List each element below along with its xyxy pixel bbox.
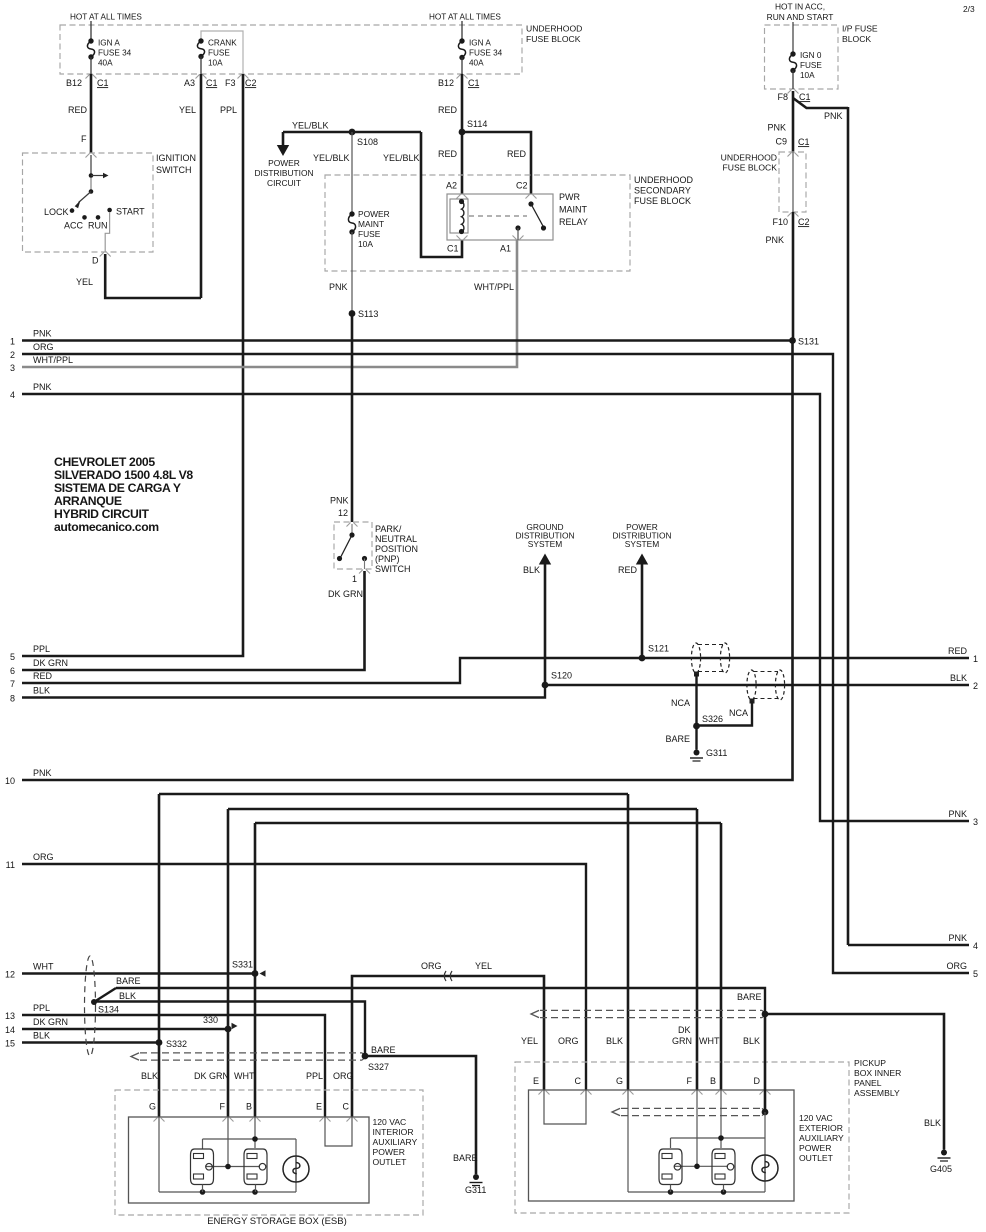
splice S331 (252, 970, 259, 977)
svg-text:E: E (533, 1076, 539, 1086)
wire BARE from S134 (94, 988, 116, 1002)
svg-text:F: F (687, 1076, 693, 1086)
svg-text:C1: C1 (468, 78, 480, 88)
svg-text:ORG: ORG (421, 961, 442, 971)
svg-text:C: C (343, 1102, 350, 1112)
fuse POWER MAINT FUSE 10A (349, 211, 354, 216)
wire through underhood fuse block (792, 152, 794, 212)
splice S114 (459, 129, 466, 136)
svg-text:BLK: BLK (141, 1071, 158, 1081)
svg-text:S327: S327 (368, 1062, 389, 1072)
svg-text:A1: A1 (500, 244, 511, 254)
svg-text:12: 12 (338, 508, 348, 518)
svg-text:PWR: PWR (559, 192, 580, 202)
ignition START contact (107, 208, 112, 213)
interior outlet internal middle bus (227, 1117, 229, 1167)
svg-text:120 VAC: 120 VAC (799, 1113, 833, 1123)
svg-text:IGN 0: IGN 0 (800, 51, 822, 60)
wire BLK step (159, 793, 628, 796)
svg-text:2: 2 (10, 350, 15, 360)
svg-text:8: 8 (10, 694, 15, 704)
svg-text:PNK: PNK (33, 768, 52, 778)
svg-text:YEL: YEL (76, 277, 93, 287)
svg-text:POWER: POWER (268, 158, 300, 168)
svg-text:WHT: WHT (234, 1071, 255, 1081)
svg-text:ASSEMBLY: ASSEMBLY (854, 1088, 900, 1098)
svg-text:13: 13 (5, 1011, 15, 1021)
svg-text:BARE: BARE (116, 976, 141, 986)
ignition switch internals (90, 155, 92, 174)
connector bracket pin 12 (347, 523, 358, 527)
svg-text:3: 3 (10, 363, 15, 373)
svg-text:FUSE BLOCK: FUSE BLOCK (526, 34, 581, 44)
svg-text:RED: RED (438, 149, 458, 159)
splice S134 (91, 999, 97, 1005)
relay switch blade (531, 204, 544, 227)
svg-text:SYSTEM: SYSTEM (625, 539, 659, 549)
svg-text:WHT/PPL: WHT/PPL (474, 282, 514, 292)
svg-text:10A: 10A (208, 59, 223, 68)
svg-text:7: 7 (10, 679, 15, 689)
receptacle (interior right) (244, 1149, 267, 1185)
wire ORG-YEL interior C to exterior E (352, 976, 544, 1117)
svg-text:BLK: BLK (33, 686, 50, 696)
exterior outlet E-C link (544, 1090, 586, 1124)
svg-text:S131: S131 (798, 337, 819, 347)
svg-text:PICKUP: PICKUP (854, 1058, 886, 1068)
relay coil (450, 199, 468, 233)
svg-text:ORG: ORG (558, 1036, 579, 1046)
svg-text:F: F (220, 1102, 226, 1112)
svg-text:RED: RED (948, 646, 968, 656)
svg-text:PNK: PNK (948, 809, 967, 819)
svg-text:C2: C2 (245, 78, 257, 88)
wire into IGN 0 fuse (792, 22, 794, 54)
connector bracket C1 (2) (457, 75, 468, 79)
wire rail 4 PNK (22, 394, 969, 821)
wire PNK branch to right vertical (793, 98, 848, 108)
svg-text:SISTEMA DE CARGA Y: SISTEMA DE CARGA Y (54, 481, 181, 495)
svg-text:SWITCH: SWITCH (375, 564, 411, 574)
svg-text:POWER: POWER (373, 1147, 405, 1157)
svg-text:11: 11 (6, 860, 15, 870)
wire PPL from C2 down to line 5 (22, 74, 243, 656)
svg-text:10A: 10A (800, 71, 815, 80)
svg-text:6: 6 (10, 666, 15, 676)
wire YEL ignition D to crank fuse A3 (105, 254, 201, 298)
svg-text:C2: C2 (798, 217, 810, 227)
svg-text:PNK: PNK (33, 382, 52, 392)
svg-text:POWER: POWER (358, 209, 390, 219)
wire BARE S326 to G311 (695, 726, 697, 750)
svg-text:PNK: PNK (33, 329, 52, 339)
exterior outlet box (529, 1090, 795, 1201)
svg-text:40A: 40A (98, 59, 113, 68)
underhood secondary fuse block dashed box (325, 175, 630, 271)
svg-text:FUSE: FUSE (358, 229, 381, 239)
svg-text:BARE: BARE (665, 734, 690, 744)
svg-text:120 VAC: 120 VAC (373, 1117, 407, 1127)
svg-text:DK GRN: DK GRN (33, 1017, 68, 1027)
svg-text:PNK: PNK (330, 496, 349, 506)
underhood fuse block (right) dashed box (779, 152, 806, 212)
svg-text:MAINT: MAINT (358, 219, 384, 229)
svg-text:WHT: WHT (33, 962, 54, 972)
svg-text:CHEVROLET 2005: CHEVROLET 2005 (54, 455, 155, 469)
wire PNK F8 down (792, 91, 795, 152)
svg-text:WHT/PPL: WHT/PPL (33, 355, 73, 365)
svg-text:G405: G405 (930, 1164, 952, 1174)
wire BARE S327 to G311 (365, 1056, 476, 1174)
svg-text:B12: B12 (66, 78, 82, 88)
svg-text:ORG: ORG (946, 961, 967, 971)
connector bracket F (86, 154, 97, 158)
svg-text:PNK: PNK (948, 933, 967, 943)
svg-text:PNK: PNK (329, 282, 348, 292)
svg-text:FUSE 34: FUSE 34 (469, 49, 503, 58)
relay switch contact A1 (515, 225, 520, 230)
svg-text:DK GRN: DK GRN (33, 658, 68, 668)
svg-text:FUSE 34: FUSE 34 (98, 49, 132, 58)
I/P fuse block dashed box (765, 25, 839, 89)
svg-text:BARE: BARE (453, 1153, 478, 1163)
svg-text:1: 1 (10, 337, 15, 347)
svg-text:WHT: WHT (699, 1036, 720, 1046)
relay PWR MAINT RELAY box (447, 194, 553, 240)
svg-text:DISTRIBUTION: DISTRIBUTION (254, 168, 313, 178)
svg-text:S332: S332 (166, 1039, 187, 1049)
svg-text:BLK: BLK (924, 1118, 941, 1128)
arrow power distribution (636, 554, 648, 565)
svg-text:EXTERIOR: EXTERIOR (799, 1123, 843, 1133)
wire break symbol (444, 971, 452, 981)
svg-text:15: 15 (5, 1039, 15, 1049)
ground G311 (upper) (694, 750, 700, 756)
svg-text:AUXILIARY: AUXILIARY (373, 1137, 418, 1147)
wire rail 12 WHT (22, 972, 255, 974)
connector bracket F10/C2 (788, 213, 799, 217)
svg-text:YEL: YEL (179, 105, 196, 115)
svg-text:RED: RED (507, 149, 527, 159)
exterior outlet internal top bus (671, 1137, 766, 1139)
svg-text:START: START (116, 207, 145, 217)
svg-text:C9: C9 (775, 137, 787, 147)
svg-text:12: 12 (5, 970, 15, 980)
svg-text:UNDERHOOD: UNDERHOOD (721, 153, 777, 163)
svg-text:BLK: BLK (743, 1036, 760, 1046)
svg-text:ENERGY STORAGE BOX (ESB): ENERGY STORAGE BOX (ESB) (207, 1216, 347, 1227)
svg-text:ARRANQUE: ARRANQUE (54, 494, 122, 508)
relay coil-switch dashed link (469, 215, 527, 217)
wire BLK from S134 to S327 (94, 1002, 365, 1057)
svg-text:S134: S134 (98, 1005, 119, 1015)
svg-text:PANEL: PANEL (854, 1078, 882, 1088)
svg-text:10: 10 (5, 776, 15, 786)
svg-text:UNDERHOOD: UNDERHOOD (634, 175, 694, 185)
svg-text:MAINT: MAINT (559, 205, 588, 215)
svg-text:RELAY: RELAY (559, 217, 588, 227)
wire RED fuse F1 to ignition switch F (90, 74, 93, 153)
interior outlet internal G bus (158, 1117, 160, 1192)
svg-text:SWITCH: SWITCH (156, 165, 192, 175)
svg-text:NCA: NCA (729, 708, 748, 718)
inline connector (RED line) (691, 643, 700, 673)
svg-text:BLK: BLK (606, 1036, 623, 1046)
wire BLK bundle to G405 (765, 1014, 944, 1150)
svg-text:IGN A: IGN A (98, 39, 120, 48)
svg-text:PPL: PPL (33, 1003, 50, 1013)
svg-text:C1: C1 (799, 92, 811, 102)
wire YEL/BLK to relay C1 (421, 132, 462, 257)
svg-text:G311: G311 (706, 748, 727, 758)
connector bracket C1 (relay) (457, 236, 468, 240)
svg-text:PPL: PPL (220, 105, 237, 115)
svg-text:5: 5 (10, 652, 15, 662)
svg-text:FUSE BLOCK: FUSE BLOCK (723, 163, 778, 173)
svg-text:YEL/BLK: YEL/BLK (313, 153, 350, 163)
svg-text:F10: F10 (772, 217, 788, 227)
connector bracket D (100, 253, 111, 257)
svg-text:A3: A3 (184, 78, 195, 88)
svg-text:F3: F3 (225, 78, 236, 88)
wire rail 7 RED (22, 658, 969, 683)
ground G405 (941, 1150, 947, 1156)
svg-text:C1: C1 (447, 244, 459, 254)
svg-text:PPL: PPL (306, 1071, 323, 1081)
wire rail 14 DK GRN (22, 1028, 228, 1030)
svg-text:ORG: ORG (333, 1071, 354, 1081)
splice S108 (349, 129, 356, 136)
splice S326 (693, 723, 700, 730)
receptacle (interior left) (191, 1149, 214, 1185)
wire PNK S131 down to line 10 (22, 341, 793, 781)
svg-text:BLK: BLK (33, 1031, 50, 1041)
svg-text:4: 4 (10, 390, 15, 400)
svg-text:DK: DK (678, 1025, 691, 1035)
svg-text:S114: S114 (467, 119, 487, 129)
wire loom oval (85, 956, 96, 1056)
wire WHT from step corner through S331 to outlet B (255, 822, 721, 825)
wire D to lamp (764, 1112, 766, 1155)
svg-text:1: 1 (352, 574, 357, 584)
svg-text:3: 3 (973, 817, 978, 827)
svg-text:AUXILIARY: AUXILIARY (799, 1133, 844, 1143)
svg-text:1: 1 (973, 654, 978, 664)
wire rail 15 BLK (22, 1041, 159, 1043)
wire WHT/PPL relay A1 to line 3 (22, 240, 517, 367)
svg-text:S108: S108 (357, 137, 378, 147)
svg-text:GRN: GRN (672, 1036, 692, 1046)
energy storage box dashed box (115, 1090, 423, 1215)
svg-text:ACC: ACC (64, 221, 84, 231)
svg-text:YEL/BLK: YEL/BLK (292, 121, 329, 131)
svg-text:DK GRN: DK GRN (194, 1071, 229, 1081)
wire from HOT AT ALL TIMES into fuse IGN A (2) (461, 21, 463, 41)
svg-text:RUN AND START: RUN AND START (767, 12, 834, 22)
svg-text:HOT AT ALL TIMES: HOT AT ALL TIMES (429, 13, 501, 22)
interior outlet internal top bus (203, 1138, 297, 1140)
wire bundle (exterior feed) (540, 1009, 762, 1011)
connector bracket F3/C2 (238, 75, 249, 79)
ignition switch dashed box (23, 153, 154, 252)
wire D bundle to outlet (764, 1014, 767, 1112)
connector bracket A3/C1 (196, 75, 207, 79)
arrow ground distribution (539, 554, 551, 565)
wire rail 2 ORG (22, 354, 969, 973)
svg-text:PNK: PNK (767, 123, 786, 133)
svg-text:INTERIOR: INTERIOR (373, 1127, 414, 1137)
svg-text:S121: S121 (648, 644, 669, 654)
svg-text:D: D (754, 1076, 761, 1086)
ignition ACC contact (82, 215, 87, 220)
splice S131 (789, 337, 796, 344)
svg-text:F: F (81, 134, 87, 144)
svg-text:S113: S113 (358, 309, 378, 319)
svg-text:BLK: BLK (950, 673, 967, 683)
wire rail 1 PNK (22, 339, 793, 341)
receptacle (exterior right) (712, 1149, 735, 1185)
connector bracket C9/C1 (788, 153, 799, 157)
svg-text:DK GRN: DK GRN (328, 589, 363, 599)
svg-text:BARE: BARE (737, 992, 762, 1002)
svg-text:FUSE: FUSE (800, 61, 822, 70)
splice S113 (349, 310, 356, 317)
splice S332 (156, 1039, 163, 1046)
svg-text:BLOCK: BLOCK (842, 34, 871, 44)
svg-text:A2: A2 (446, 181, 457, 191)
svg-text:C1: C1 (97, 78, 109, 88)
svg-text:PARK/: PARK/ (375, 524, 402, 534)
connector bracket C2 (relay) (526, 195, 537, 199)
YEL/BLK wire S108 horizontal (283, 131, 421, 134)
wire PNK S113 to PNP switch (351, 314, 354, 523)
svg-text:OUTLET: OUTLET (799, 1153, 834, 1163)
svg-text:B12: B12 (438, 78, 454, 88)
svg-text:SYSTEM: SYSTEM (528, 539, 562, 549)
underhood fuse block (top) dashed box (60, 25, 522, 74)
svg-text:5: 5 (973, 969, 978, 979)
wire RED fuse F3 down to relay A2 (461, 74, 464, 194)
svg-text:ORG: ORG (33, 852, 54, 862)
PNP switch dashed box (334, 522, 372, 569)
svg-text:B: B (710, 1076, 716, 1086)
wire rail 13 PPL (22, 1015, 325, 1117)
svg-text:NEUTRAL: NEUTRAL (375, 534, 417, 544)
arrow to power distribution circuit (282, 132, 285, 149)
svg-text:2: 2 (973, 681, 978, 691)
splice 330 (225, 1026, 232, 1033)
connector bracket at C1 (86, 75, 97, 79)
svg-text:C: C (575, 1076, 582, 1086)
wire power maint fuse to S113 (351, 232, 353, 314)
svg-text:G: G (149, 1102, 156, 1112)
svg-text:PPL: PPL (33, 644, 50, 654)
svg-text:FUSE BLOCK: FUSE BLOCK (634, 196, 691, 206)
fuse F2 CRANK FUSE 10A (198, 38, 203, 43)
ignition RUN contact (96, 215, 101, 220)
svg-text:CRANK: CRANK (208, 39, 237, 48)
wire DK GRN step (228, 808, 697, 811)
svg-text:C2: C2 (516, 181, 528, 191)
PNP switch internals (351, 524, 353, 533)
NCA wire from connector 2 to S326 (750, 699, 755, 704)
connector bracket A1 (513, 236, 524, 240)
svg-text:YEL: YEL (521, 1036, 538, 1046)
svg-text:IGN A: IGN A (469, 39, 491, 48)
svg-text:G: G (616, 1076, 623, 1086)
svg-text:BOX INNER: BOX INNER (854, 1068, 901, 1078)
svg-text:S120: S120 (551, 671, 572, 681)
svg-text:IGNITION: IGNITION (156, 153, 196, 163)
wire bundle (ESB harness) (140, 1052, 362, 1054)
wire bundle (exterior internal) (621, 1107, 762, 1109)
svg-text:PNK: PNK (824, 111, 843, 121)
indicator lamp (interior) (283, 1156, 309, 1182)
svg-text:40A: 40A (469, 59, 484, 68)
wire rail 8 BLK (22, 685, 969, 698)
receptacle (exterior left) (659, 1149, 682, 1185)
svg-text:D: D (92, 256, 99, 266)
svg-text:YEL: YEL (475, 961, 492, 971)
svg-text:FUSE: FUSE (208, 49, 230, 58)
svg-text:SECONDARY: SECONDARY (634, 186, 691, 196)
ignition LOCK contact (70, 208, 75, 213)
svg-text:I/P FUSE: I/P FUSE (842, 24, 878, 34)
svg-text:C1: C1 (798, 137, 810, 147)
fuse F1 IGN A FUSE 34 40A (88, 38, 93, 43)
interior outlet box (129, 1117, 370, 1203)
wire S108 to power maint fuse (351, 132, 353, 214)
svg-text:HYBRID CIRCUIT: HYBRID CIRCUIT (54, 507, 150, 521)
splice S327 (362, 1053, 369, 1060)
connector bracket pin 1 (359, 570, 370, 574)
relay switch contact C2 (528, 201, 533, 206)
svg-text:B: B (246, 1102, 252, 1112)
inline connector (BLK line) (747, 670, 756, 700)
interior outlet E-C link (325, 1117, 352, 1146)
svg-text:POWER: POWER (799, 1143, 831, 1153)
svg-text:G311: G311 (465, 1185, 486, 1195)
svg-text:RED: RED (33, 671, 53, 681)
svg-text:2/3: 2/3 (963, 4, 975, 14)
svg-text:NCA: NCA (671, 698, 690, 708)
svg-text:330: 330 (203, 1015, 218, 1025)
svg-text:BLK: BLK (119, 991, 136, 1001)
svg-text:F8: F8 (777, 92, 788, 102)
svg-text:SILVERADO 1500 4.8L V8: SILVERADO 1500 4.8L V8 (54, 468, 193, 482)
exterior outlet internal middle bus (696, 1090, 698, 1166)
wire PNK 4 right segment (848, 944, 969, 946)
svg-text:E: E (316, 1102, 322, 1112)
NCA wire from connector to S326 (694, 672, 699, 677)
svg-text:LOCK: LOCK (44, 207, 69, 217)
connector bracket A2 (457, 195, 468, 199)
svg-text:10A: 10A (358, 239, 373, 249)
wire from HOT AT ALL TIMES into fuse IGN A (90, 21, 92, 41)
connector bracket F8/C1 (788, 90, 799, 94)
svg-text:(PNP): (PNP) (375, 554, 400, 564)
wire rail 11 ORG (22, 864, 586, 1090)
wire DK GRN PNP to line 6 (22, 571, 365, 670)
svg-text:OUTLET: OUTLET (373, 1157, 408, 1167)
svg-text:BARE: BARE (371, 1045, 396, 1055)
svg-text:RED: RED (438, 105, 458, 115)
exterior outlet internal G bus (627, 1090, 629, 1192)
wire PNK F10 down to S131 (792, 212, 795, 341)
wire RED S114 branch to relay C2 (462, 132, 531, 194)
svg-text:automecanico.com: automecanico.com (54, 520, 159, 534)
svg-text:ORG: ORG (33, 342, 54, 352)
